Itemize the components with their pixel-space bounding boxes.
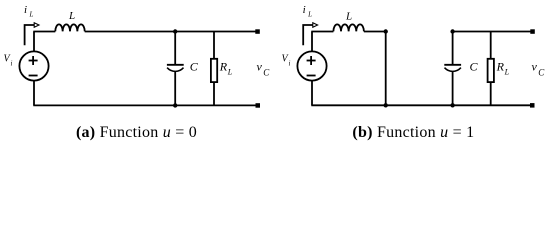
svg-text:i: i — [24, 4, 27, 16]
wire: top rail left segment (a) — [33, 31, 55, 33]
wire: bottom rail (a) — [33, 104, 255, 106]
svg-text:C: C — [263, 67, 270, 77]
svg-text:L: L — [504, 67, 510, 76]
wire: source bottom to bottom rail (b) — [311, 81, 313, 106]
inductor L (a) — [55, 24, 84, 31]
current arrow i_L (b) — [303, 23, 317, 46]
svg-text:R: R — [496, 59, 505, 73]
svg-text:i: i — [289, 60, 291, 68]
svg-text:L: L — [29, 11, 34, 19]
wire: capacitor lower lead (b) — [452, 72, 454, 106]
voltage source V_i (b) — [297, 51, 326, 80]
wire: resistor lower lead (b) — [490, 82, 492, 105]
current arrow i_L (a) — [25, 23, 39, 46]
terminal: output bottom (a) — [256, 103, 261, 108]
wire: freewheeling vertical (b) — [385, 32, 387, 106]
svg-text:L: L — [68, 10, 75, 22]
wire: top rail right segment (a) — [85, 31, 256, 33]
svg-text:(a) Function u = 0: (a) Function u = 0 — [76, 124, 197, 141]
wire: source top to top rail (b) — [311, 32, 313, 52]
terminal: output top (a) — [255, 29, 259, 34]
wire: source bottom to bottom rail (a) — [33, 81, 35, 106]
node: switch top junction (b) — [384, 29, 388, 33]
node: capacitor bottom junction (b) — [450, 103, 454, 107]
terminal: output bottom (b) — [530, 103, 535, 108]
wire: top rail to switch node (b) — [364, 31, 386, 33]
node: capacitor top junction (a) — [173, 29, 177, 33]
wire: capacitor upper lead (a) — [174, 32, 176, 65]
voltage source V_i (a) — [19, 51, 48, 80]
svg-text:R: R — [219, 59, 228, 73]
svg-text:L: L — [227, 67, 233, 76]
svg-text:L: L — [307, 11, 312, 19]
svg-text:L: L — [345, 11, 352, 23]
node: capacitor top junction (b) — [450, 29, 454, 33]
svg-text:C: C — [190, 60, 199, 74]
svg-text:v: v — [532, 59, 538, 73]
capacitor C (a) — [167, 65, 184, 72]
wire: source top to top rail (a) — [33, 32, 35, 52]
svg-text:C: C — [538, 67, 545, 77]
wire: resistor upper lead (a) — [213, 32, 215, 60]
wire: top rail left segment (b) — [311, 31, 333, 33]
svg-text:v: v — [257, 59, 263, 73]
resistor R_L (a) — [211, 59, 217, 82]
svg-text:i: i — [11, 60, 13, 68]
wire: resistor upper lead (b) — [490, 32, 492, 60]
wire: resistor lower lead (a) — [213, 82, 215, 105]
wire: right section top rail (b) — [453, 31, 531, 33]
node: freewheeling bottom junction (b) — [384, 103, 388, 107]
capacitor C (b) — [444, 65, 461, 72]
wire: capacitor upper lead (b) — [452, 32, 454, 65]
svg-text:(b) Function u = 1: (b) Function u = 1 — [352, 124, 474, 141]
resistor R_L (b) — [488, 59, 494, 82]
wire: bottom rail (b) — [311, 104, 530, 106]
wire: capacitor lower lead (a) — [174, 72, 176, 106]
svg-text:i: i — [303, 4, 306, 16]
node: capacitor bottom junction (a) — [173, 103, 177, 107]
svg-text:C: C — [470, 60, 479, 74]
terminal: output top (b) — [530, 29, 535, 34]
inductor L (b) — [333, 24, 363, 31]
